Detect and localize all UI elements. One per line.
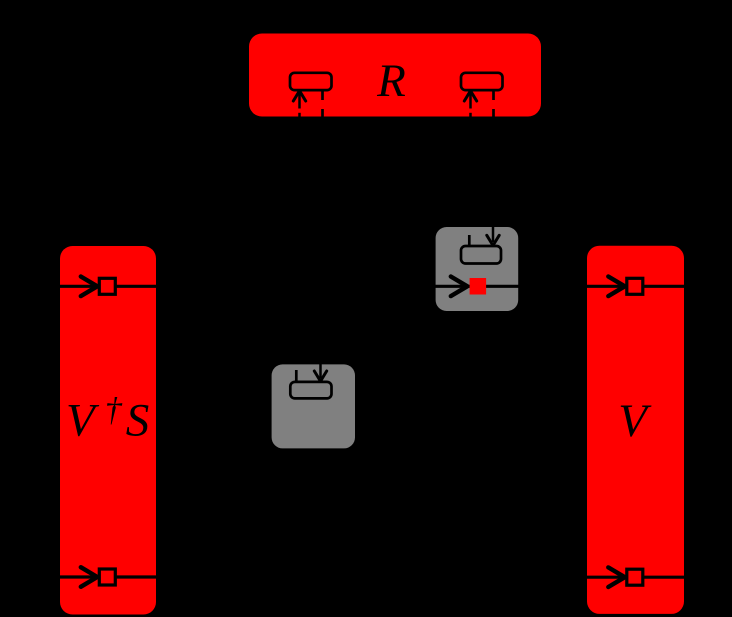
glyph C: small box in G1 <box>461 246 501 264</box>
node filled square G1 (red) <box>470 278 487 295</box>
node square top-right <box>627 278 643 294</box>
wire top-right (through V at y=286.3) <box>578 285 695 288</box>
wire through G1 (y=286.3) <box>428 285 526 288</box>
glyph B left leg shaft <box>469 91 472 109</box>
arrow on wire top-left <box>81 277 98 297</box>
wire bottom-right (through V at y=577.2) <box>578 576 695 579</box>
box G1 (gray sketch tensor, upper right) <box>436 227 519 311</box>
node square bottom-right <box>627 569 643 585</box>
box R (top red tensor) <box>249 34 541 117</box>
arrow on wire G1 <box>451 277 468 297</box>
node square top-left <box>99 278 115 294</box>
glyph A up-arrow head <box>293 91 305 101</box>
glyph A right leg (dashed) <box>321 90 324 117</box>
wire bottom-left (through V&#8224;S at y=577) <box>20 575 165 578</box>
arrow on wire bottom-left <box>81 567 98 587</box>
arrow on wire top-right <box>608 277 625 297</box>
glyph A left leg shaft <box>298 91 301 109</box>
glyph B up-arrow head <box>464 91 476 101</box>
glyph C down-arrow head <box>487 235 499 245</box>
glyph C tick leg <box>468 235 471 246</box>
box V&#8224;S (left red tensor) <box>60 246 156 615</box>
glyph B right leg (dashed) <box>492 90 495 117</box>
glyph D: small box in G2 <box>290 382 331 399</box>
svg-text:R: R <box>376 55 406 107</box>
glyph B: small box in R (right) <box>461 73 503 90</box>
glyph D down-arrow head <box>314 371 326 381</box>
glyph C down-arrow shaft <box>492 226 495 242</box>
box V (right red tensor) <box>587 246 684 614</box>
glyph A: small box in R (left) <box>290 73 332 90</box>
arrow on wire bottom-right <box>608 567 625 587</box>
glyph B left leg dash nub <box>469 113 472 117</box>
box G2 (gray sketch tensor, lower middle) <box>272 364 355 448</box>
glyph D tick leg <box>295 370 298 382</box>
node square bottom-left <box>99 569 115 585</box>
glyph D down-arrow shaft <box>319 364 322 379</box>
glyph A left leg dash nub <box>298 113 301 117</box>
wire top-left (through V&#8224;S at y=286.3) <box>20 285 165 288</box>
